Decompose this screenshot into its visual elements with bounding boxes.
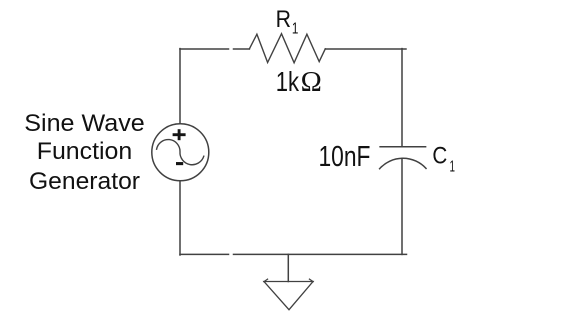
wire bottom left segment bbox=[180, 253, 229, 255]
svg-text:Ω: Ω bbox=[301, 67, 322, 98]
wire resistor to top-right corner bbox=[325, 48, 406, 50]
svg-text:10nF: 10nF bbox=[319, 141, 371, 173]
svg-text:1k: 1k bbox=[276, 66, 300, 97]
wire left vertical upper (corner to source) bbox=[179, 49, 181, 124]
source sine wave symbol bbox=[157, 140, 204, 165]
svg-text:C: C bbox=[432, 143, 447, 170]
ground triangle corner ticks bbox=[264, 279, 313, 282]
source V1 circle bbox=[152, 124, 209, 181]
svg-text:Sine Wave: Sine Wave bbox=[24, 110, 145, 137]
svg-text:Generator: Generator bbox=[29, 168, 140, 195]
svg-text:R: R bbox=[276, 6, 291, 33]
wire right vertical upper (to capacitor) bbox=[401, 49, 403, 147]
wire bottom right segment bbox=[234, 253, 407, 255]
wire right vertical lower (capacitor to bottom corner) bbox=[401, 159, 403, 255]
label Sine Wave Function Generator bbox=[24, 110, 145, 195]
wire top-left horizontal segment bbox=[180, 48, 229, 50]
svg-text:Function: Function bbox=[37, 138, 133, 165]
ground stub wire bbox=[287, 254, 289, 281]
resistor R1 bbox=[249, 34, 325, 63]
capacitor C1 curved plate bbox=[380, 158, 426, 168]
source minus sign bbox=[176, 162, 183, 165]
svg-text:1: 1 bbox=[292, 20, 299, 37]
wire left vertical lower (source to bottom corner) bbox=[179, 181, 181, 255]
ground triangle bbox=[264, 282, 313, 310]
source plus sign bbox=[173, 129, 186, 140]
svg-text:1: 1 bbox=[450, 158, 456, 175]
wire top horizontal segment to resistor bbox=[234, 48, 250, 50]
capacitor C1 top plate bbox=[380, 146, 426, 148]
